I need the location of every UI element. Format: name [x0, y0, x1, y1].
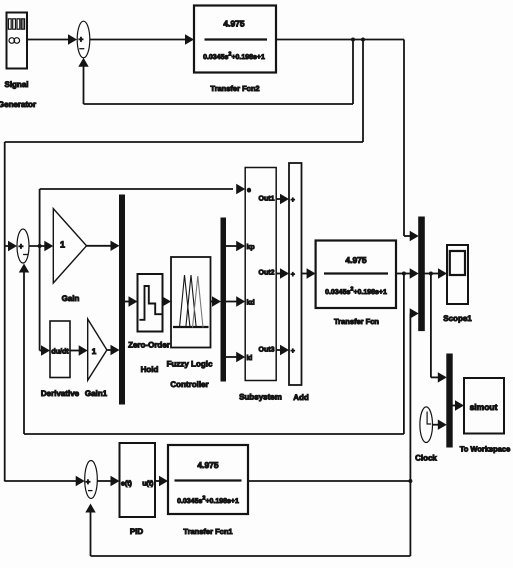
wire PID output rail [409, 314, 411, 557]
wire workspace tap down [430, 274, 432, 378]
gain block Gain [53, 209, 86, 283]
label Transfer Fcn2 [210, 84, 259, 93]
pid block PID [120, 443, 156, 517]
svg-text:Out1: Out1 [259, 196, 275, 203]
wire pid feedback up to Sum3 [85, 504, 95, 557]
svg-text:Fuzzy Logic: Fuzzy Logic [167, 360, 213, 369]
wire Derivative to Gain1 [70, 345, 88, 355]
wire feedback loop1 down [352, 40, 354, 105]
label Transfer Fcn [334, 317, 379, 326]
wire ZOH to Fuzzy [162, 296, 171, 306]
wire TransferFcn2 output [276, 39, 404, 41]
mux Mux1 (3-in) [419, 217, 425, 331]
svg-text:Transfer Fcn2: Transfer Fcn2 [210, 84, 259, 93]
svg-text:Gain1: Gain1 [85, 389, 108, 398]
add block Add [289, 163, 302, 385]
wire Sum3 to PID [97, 476, 119, 486]
label Fuzzy Logic Controller [167, 360, 213, 390]
wire rail to Sum3 [5, 476, 85, 486]
svg-text:To Workspace: To Workspace [460, 445, 511, 454]
wire Clock to Mux2 [433, 420, 447, 430]
svg-text:Out3: Out3 [259, 347, 275, 354]
svg-text:4.975: 4.975 [197, 460, 219, 470]
svg-text:4.975: 4.975 [345, 255, 367, 265]
svg-text:Gain: Gain [62, 294, 80, 303]
label Derivative [41, 389, 80, 398]
signal generator SG [7, 13, 28, 69]
svg-text:e(t): e(t) [121, 480, 132, 488]
svg-text:Transfer Fcn1: Transfer Fcn1 [183, 527, 232, 536]
wire reference left rail [4, 142, 6, 482]
wire Fuzzy to Demux [211, 296, 222, 306]
to workspace block simout [464, 378, 504, 434]
wire Add to TransferFcn [302, 268, 316, 278]
wire Gain1 to Mux [107, 345, 120, 355]
wire Sum1 to TransferFcn2 [90, 34, 194, 44]
svg-text:kd: kd [247, 299, 255, 307]
wire Sum2 to Gain [29, 241, 53, 251]
svg-text:4.975: 4.975 [223, 19, 245, 29]
label Zero-Order Hold [128, 341, 170, 375]
svg-text:+: + [291, 348, 295, 355]
zero-order hold block [138, 274, 163, 332]
svg-text:+: + [291, 197, 295, 204]
svg-text:Out2: Out2 [259, 270, 275, 277]
wire TransferFcn1 output [248, 480, 410, 482]
svg-text:+: + [79, 35, 84, 44]
sum junction Sum1 [77, 21, 90, 58]
gain block Gain1 [88, 319, 107, 380]
wire PID fb to Mux1 [410, 308, 419, 318]
label Scope1 [443, 314, 472, 323]
sum junction Sum2 [17, 229, 29, 263]
svg-text:Transfer Fcn: Transfer Fcn [334, 317, 379, 326]
junction J5 (workspace tap) [429, 272, 433, 276]
wire reference line down [362, 40, 364, 143]
svg-text:+: + [19, 242, 24, 251]
wire Gain to Mux [87, 241, 120, 251]
transfer fcn block Transfer Fcn [316, 241, 396, 309]
svg-text:Generator: Generator [0, 100, 36, 109]
wire PID to TransferFcn1 [155, 476, 168, 486]
svg-text:Scope1: Scope1 [443, 314, 472, 323]
wire Mux to ZeroOrderHold [125, 296, 138, 306]
svg-text:Derivative: Derivative [41, 389, 80, 398]
svg-text:PID: PID [130, 527, 144, 536]
svg-text:ki: ki [247, 354, 253, 362]
transfer fcn block Transfer Fcn1 [168, 445, 248, 514]
mux Mux (2-in) [120, 195, 125, 404]
label Clock [415, 454, 437, 463]
svg-text:+: + [86, 477, 91, 486]
fuzzy logic controller block [171, 257, 211, 348]
wire feedback loop1 up to Sum1 [78, 58, 88, 104]
wire Mux2 to simout [452, 400, 464, 410]
wire Out1 to Add [276, 194, 289, 204]
wire kd [226, 296, 246, 306]
wire fuzzy feedback down [403, 274, 405, 435]
scope block Scope1 [447, 245, 468, 304]
junction J3 (error tap) [38, 244, 42, 248]
sum junction Sum3 [85, 461, 98, 499]
label Signal Generator [0, 80, 36, 109]
wire Out2 to Add [276, 268, 289, 278]
junction J6 (pid out tap) [408, 479, 412, 483]
wire error up [39, 189, 41, 246]
wire fuzzy feedback up to Sum2 [19, 264, 29, 435]
svg-text:+: + [291, 272, 295, 279]
svg-text:1: 1 [92, 347, 97, 356]
label Subsystem [239, 393, 282, 402]
svg-text:Controller: Controller [170, 380, 208, 389]
svg-text:du/dt: du/dt [51, 347, 69, 356]
svg-text:e: e [247, 187, 251, 194]
svg-text:Zero-Order: Zero-Order [128, 341, 170, 350]
wire TransferFcn to Mux1 [396, 268, 419, 278]
label Gain1 [85, 389, 108, 398]
wire workspace tap to Mux2 [431, 372, 447, 382]
label Gain [62, 294, 80, 303]
wire Out3 to Add [276, 345, 289, 355]
label To Workspace [460, 445, 511, 454]
wire e to Subsystem [40, 184, 246, 194]
wire kp [226, 241, 246, 251]
wire fuzzy feedback across [24, 433, 404, 435]
svg-text:Hold: Hold [141, 365, 159, 374]
junction J1 (feedback tap) [351, 38, 355, 42]
wire feedback loop1 across [84, 103, 354, 105]
svg-text:Subsystem: Subsystem [239, 393, 282, 402]
svg-text:Clock: Clock [415, 454, 437, 463]
wire pid feedback down-across [91, 555, 411, 557]
mux Mux2 (2-in) [447, 354, 452, 447]
wire top branch to Mux1 [404, 40, 419, 242]
wire reference line across [5, 141, 363, 143]
wire SG to Sum1 [27, 34, 77, 44]
demux Demux (3-out) [221, 218, 226, 381]
wire rail to Sum2 [5, 241, 17, 251]
wire error down [39, 246, 41, 351]
derivative block Derivative [50, 321, 70, 378]
svg-text:u(t): u(t) [142, 480, 153, 488]
subsystem block Subsystem [245, 168, 276, 381]
label Add [293, 393, 309, 402]
junction J2 (reference tap) [361, 38, 365, 42]
svg-text:simout: simout [470, 402, 498, 412]
label Transfer Fcn1 [183, 527, 232, 536]
wire to Derivative [40, 345, 50, 355]
svg-text:Signal: Signal [4, 80, 28, 89]
svg-text:Add: Add [293, 393, 309, 402]
junction J4 (fuzzy fb tap) [402, 272, 406, 276]
clock block Clock [420, 407, 433, 443]
wire ki [226, 352, 246, 362]
transfer fcn block Transfer Fcn2 [194, 6, 276, 73]
label PID [130, 527, 144, 536]
svg-text:1: 1 [60, 240, 65, 250]
svg-text:kp: kp [247, 243, 255, 251]
wire Mux1 to Scope1 [424, 268, 447, 278]
